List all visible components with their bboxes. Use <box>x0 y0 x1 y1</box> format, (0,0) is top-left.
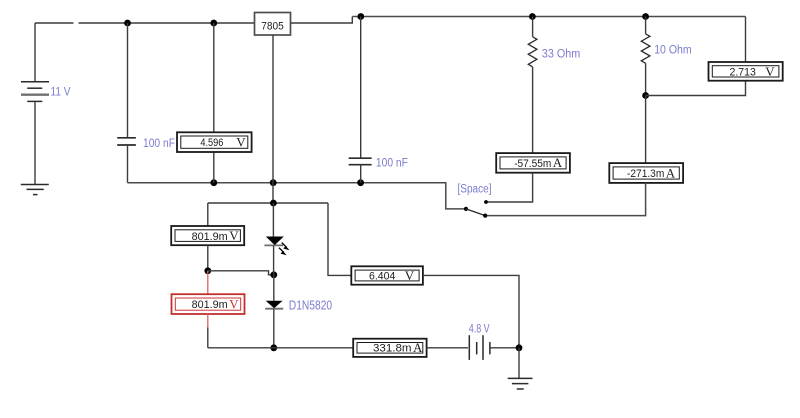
svg-text:4.8 V: 4.8 V <box>469 324 490 336</box>
svg-text:10 Ohm: 10 Ohm <box>654 44 692 56</box>
node junction dot 7805 bottom branch <box>270 179 277 186</box>
wire diode D2 bottom lead <box>273 309 275 348</box>
resistor R2 10 Ohm <box>641 17 650 96</box>
wire 7805 right pin <box>291 17 353 24</box>
svg-text:V: V <box>229 296 239 311</box>
LED D1 light arrow 2 <box>279 248 287 256</box>
wire middle bus <box>128 183 467 209</box>
ammeter M6 -271.3mA <box>609 163 683 183</box>
svg-text:100 nF: 100 nF <box>143 138 175 150</box>
voltmeter M1 4.596 V <box>177 132 252 152</box>
node junction dot C2 top <box>357 13 364 20</box>
voltmeter M2 801.9mV <box>171 226 244 245</box>
wire capacitor C2 bottom lead <box>360 165 362 183</box>
node junction dot loop bottom <box>270 344 277 351</box>
resistor R1 33 Ohm <box>528 17 537 154</box>
node switch open contact dot <box>484 200 488 204</box>
svg-text:V: V <box>229 228 239 243</box>
wire top-right bus <box>352 16 745 18</box>
ammeter M4 -57.55mA <box>496 153 570 173</box>
switch S1 arm <box>466 209 485 216</box>
battery V1 11V <box>21 82 49 102</box>
wire M4 bottom lead to switch open contact <box>486 173 533 202</box>
diode D2 D1N5820 <box>265 301 283 309</box>
wire loop right rail <box>328 203 351 275</box>
wire M7 right lead down to ground node <box>423 275 519 347</box>
svg-text:V: V <box>236 134 246 149</box>
svg-text:V: V <box>765 64 775 79</box>
wire top-left bus segment B <box>79 22 255 24</box>
svg-text:2.713: 2.713 <box>730 66 756 78</box>
wire meter M2 top lead <box>207 203 209 226</box>
node junction dot R1 top <box>529 13 536 20</box>
wire meter M1 bottom lead <box>213 152 215 183</box>
svg-text:7805: 7805 <box>261 20 284 32</box>
node junction dot LED top <box>270 200 277 207</box>
node junction dot at cap C1 branch <box>124 20 131 27</box>
wire LED D1 top lead <box>272 203 274 237</box>
svg-text:4.596: 4.596 <box>200 137 223 149</box>
battery B2 4.8V <box>469 335 490 360</box>
voltmeter M5 2.713 V <box>709 62 783 81</box>
node junction dot at meter M1 branch <box>210 20 217 27</box>
wire LED loop top rail <box>208 202 328 204</box>
wire LED D1 bottom lead <box>273 245 275 274</box>
wire battery B2 right lead <box>490 347 519 349</box>
svg-text:100 nF: 100 nF <box>376 157 408 169</box>
LED D1 <box>264 237 283 246</box>
svg-text:A: A <box>413 340 423 355</box>
regulator U1 7805 <box>255 13 291 36</box>
node junction dot left mid <box>204 267 211 274</box>
wire voltmeter M5 top lead <box>745 17 747 63</box>
svg-text:V: V <box>405 268 415 283</box>
ammeter M8 331.8mA <box>353 339 426 357</box>
node junction dot M1 bottom <box>210 179 217 186</box>
node junction dot C2 bottom <box>357 179 364 186</box>
voltmeter M7 6.404 V <box>351 266 423 284</box>
wire mid connector <box>208 271 274 275</box>
wire diode D2 top lead <box>273 275 275 301</box>
wire loop bottom rail <box>208 347 353 349</box>
svg-text:[Space]: [Space] <box>458 184 492 196</box>
wire meter M1 top lead <box>213 23 215 132</box>
wire M8 right lead <box>427 347 468 349</box>
switch S1 pivot dot <box>464 207 468 211</box>
wire capacitor C1 bottom lead <box>127 145 129 183</box>
svg-text:33 Ohm: 33 Ohm <box>542 49 581 61</box>
wire battery V1 top lead <box>34 23 36 82</box>
wire top-left bus segment A <box>35 22 74 24</box>
svg-text:11 V: 11 V <box>51 86 71 98</box>
svg-text:D1N5820: D1N5820 <box>289 298 332 312</box>
svg-text:801.9m: 801.9m <box>192 299 228 311</box>
node junction dot ground branch <box>516 344 523 351</box>
capacitor C1 100nF <box>117 138 136 145</box>
wire M6 bottom lead to switch throw <box>485 183 645 216</box>
LED D1 light arrow 1 <box>282 243 290 251</box>
voltmeter M3 801.9mV selected red <box>172 294 245 314</box>
capacitor C2 100nF <box>349 158 372 165</box>
svg-text:6.404: 6.404 <box>369 270 395 282</box>
wire meter M2 bottom lead <box>207 245 209 271</box>
wire ammeter M6 top lead <box>645 96 647 164</box>
wire meter M3 top lead (red) <box>207 271 209 294</box>
svg-text:331.8m: 331.8m <box>373 343 412 355</box>
svg-text:A: A <box>666 165 676 180</box>
wire ground G2 lead <box>518 348 520 379</box>
wire battery V1 bottom lead <box>34 101 36 184</box>
wire capacitor C2 top lead <box>360 17 362 158</box>
wire 7805 bottom branch <box>272 35 274 203</box>
node junction dot R2 top <box>642 13 649 20</box>
svg-text:A: A <box>553 155 563 170</box>
svg-text:801.9m: 801.9m <box>192 231 228 243</box>
switch S1 throw dot <box>483 214 487 218</box>
ground G2 <box>508 378 533 389</box>
svg-text:-271.3m: -271.3m <box>627 168 664 180</box>
wire loop left lower <box>207 328 209 348</box>
ground G1 <box>21 185 49 195</box>
wire capacitor C1 top lead <box>127 23 129 137</box>
wire meter M3 bottom lead (red) <box>207 314 209 328</box>
node junction dot R2 bottom <box>642 92 649 99</box>
wire voltmeter M5 bottom lead <box>646 81 746 96</box>
node junction dot mid branch <box>270 271 277 278</box>
svg-text:-57.55m: -57.55m <box>514 158 551 170</box>
